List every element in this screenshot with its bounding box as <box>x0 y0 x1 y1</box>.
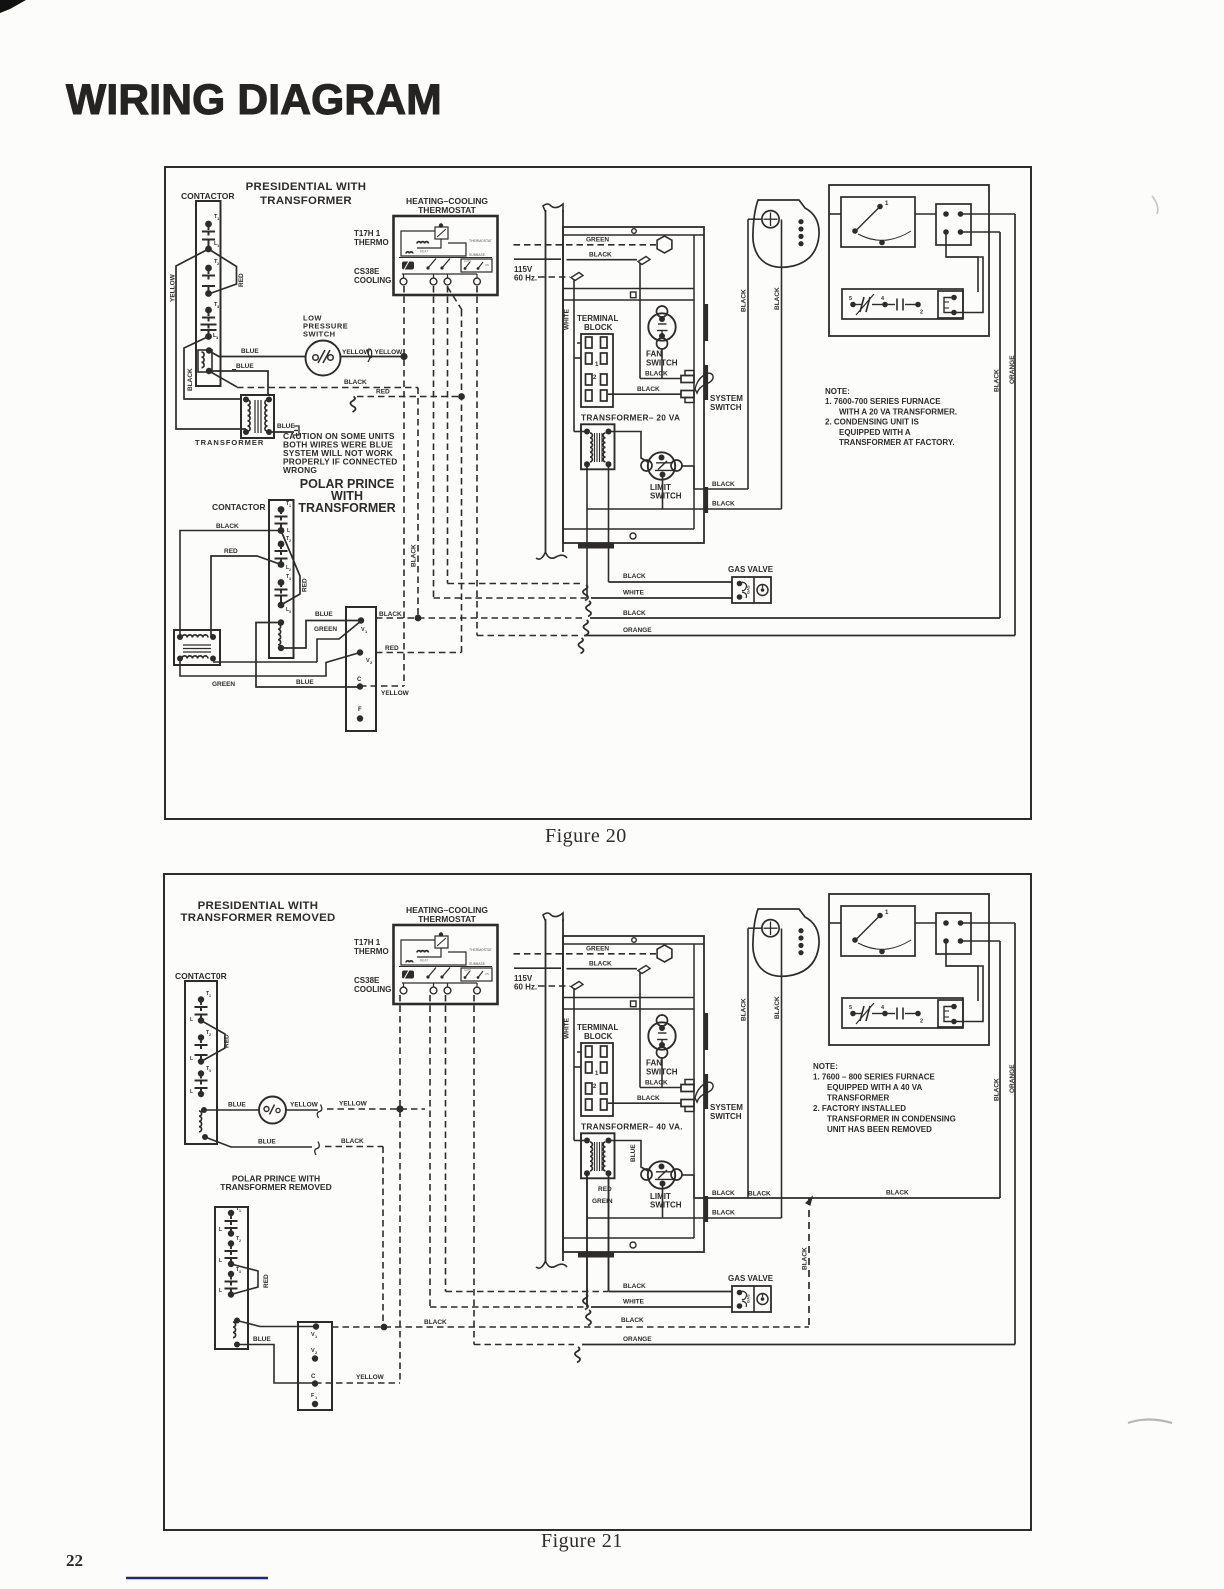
furnace lower band <box>563 528 694 530</box>
contactor (fig21 presidential) <box>185 981 217 1144</box>
thermostat inner circuit loop <box>401 940 466 965</box>
svg-text:TRANSFORMER REMOVED: TRANSFORMER REMOVED <box>220 1182 331 1192</box>
system switch lever <box>695 373 713 393</box>
svg-text:THERMOSTAT: THERMOSTAT <box>418 205 477 215</box>
thermostat switch arm 2 <box>442 968 450 978</box>
svg-text:BLACK: BLACK <box>741 998 748 1021</box>
svg-text:BLACK: BLACK <box>589 961 612 968</box>
svg-text:RED: RED <box>224 548 238 555</box>
wire ORANGE fig21 to condenser <box>582 1344 1015 1346</box>
contactor coil (presidential) <box>198 350 212 372</box>
svg-text:3: 3 <box>239 1270 241 1274</box>
fig21 polar red jumper <box>231 1264 258 1295</box>
polar contactor coil <box>278 619 284 625</box>
terminal block left stub <box>577 1051 581 1053</box>
svg-text:GREIN: GREIN <box>592 1198 613 1205</box>
thermostat cool anticipator <box>406 252 413 254</box>
wire BLACK fig21 dashed riser to gas valve <box>808 1198 810 1327</box>
svg-text:2: 2 <box>289 539 291 543</box>
svg-text:BLUE: BLUE <box>228 1102 246 1109</box>
thermostat switch arm 1 <box>428 968 436 978</box>
wire BLACK polar contactor to transformer <box>180 531 281 638</box>
svg-text:AUTO: AUTO <box>464 968 471 972</box>
svg-text:BLACK: BLACK <box>994 369 1001 392</box>
svg-text:BLUE: BLUE <box>236 363 254 370</box>
fig21 contactor red jumper <box>201 1021 225 1062</box>
svg-text:GAS: GAS <box>746 1294 751 1303</box>
thermostat drop wire 3 <box>447 286 449 584</box>
svg-text:TERMINAL: TERMINAL <box>577 1023 618 1032</box>
system switch <box>681 376 694 383</box>
furnace cabinet hatch strip <box>578 1253 614 1258</box>
capacitor 2 <box>896 299 898 311</box>
control transformer 20 VA <box>581 424 615 469</box>
thermostat terminal W <box>430 987 437 994</box>
contactor contact L3 <box>201 324 217 326</box>
wire condenser terminals to ORANGE <box>961 213 1016 215</box>
svg-text:ORANGE: ORANGE <box>623 1336 652 1343</box>
terminal block <box>581 334 613 407</box>
polar contactor contact L1 <box>275 523 288 525</box>
svg-text:TRANSFORMER IN CONDENSING: TRANSFORMER IN CONDENSING <box>827 1115 956 1124</box>
thermostat terminal W <box>430 278 437 285</box>
junction node yellow fig21 <box>396 1105 403 1112</box>
wire condenser internal jumper <box>946 941 978 1001</box>
svg-text:BLACK: BLACK <box>774 287 781 310</box>
svg-text:2: 2 <box>289 568 291 572</box>
polar contactor contact T3 <box>278 579 285 586</box>
low pressure switch (fig21) <box>259 1097 286 1124</box>
wire BLACK blower to limit circuit (left) <box>747 928 749 1198</box>
svg-text:YELLOW: YELLOW <box>170 273 177 302</box>
svg-text:22: 22 <box>66 1551 83 1570</box>
svg-text:TRANSFORMER– 40 VA.: TRANSFORMER– 40 VA. <box>581 1122 683 1132</box>
thermostat heat anticipator coil <box>417 951 428 953</box>
wire BLACK limit switch to cabinet wall <box>681 465 694 467</box>
svg-text:SYSTEM: SYSTEM <box>710 1103 743 1112</box>
contactor (polar prince) <box>269 500 294 658</box>
fig21 polar contact T3 <box>228 1271 234 1277</box>
contactor contact L1 <box>202 239 215 241</box>
svg-text:YELLOW: YELLOW <box>381 690 410 697</box>
svg-text:C: C <box>311 1374 316 1380</box>
svg-text:THERMOSTAT: THERMOSTAT <box>469 239 492 243</box>
wire BLACK fig21 V1 long dashed <box>332 1326 809 1328</box>
svg-text:SYSTEM: SYSTEM <box>710 394 743 403</box>
svg-text:WIRING DIAGRAM: WIRING DIAGRAM <box>66 77 442 124</box>
svg-text:WHITE: WHITE <box>623 590 645 597</box>
wire fan switch tap <box>661 349 663 379</box>
quick-connect flag on BLACK <box>638 966 650 974</box>
thermostat terminal strip fig21 (V box) <box>298 1322 332 1410</box>
capacitor 2 <box>896 1008 898 1020</box>
svg-text:L: L <box>219 1227 222 1233</box>
svg-text:TRANSFORMER: TRANSFORMER <box>195 438 264 447</box>
wire GREEN (dashed) into furnace <box>514 244 657 246</box>
condenser capacitor box <box>842 289 963 319</box>
svg-text:SWITCH: SWITCH <box>710 1112 742 1121</box>
wire YELLOW contactor loop <box>176 249 246 429</box>
blue rule bottom <box>126 1577 268 1579</box>
quick-connect flag on 115V wire <box>571 273 583 281</box>
polar contactor contact T1 <box>278 506 285 513</box>
svg-text:TERMINAL: TERMINAL <box>577 314 618 323</box>
furnace cabinet screw bottom <box>630 1242 636 1248</box>
svg-text:BLUE: BLUE <box>296 679 314 686</box>
svg-text:TRANSFORMER: TRANSFORMER <box>260 195 352 207</box>
svg-text:GREEN: GREEN <box>314 626 337 633</box>
wire drops from transformer <box>586 1173 588 1307</box>
svg-text:5: 5 <box>849 1005 852 1011</box>
wire BLACK fig21 limit to condenser long <box>694 1197 1000 1199</box>
svg-text:BLACK: BLACK <box>886 1190 909 1197</box>
svg-text:COOLING: COOLING <box>354 276 391 285</box>
wire BLUE fig21 polar to C <box>237 1345 315 1384</box>
svg-text:WHITE: WHITE <box>564 1017 571 1039</box>
svg-text:BLUE: BLUE <box>253 1336 271 1343</box>
wire BLACK furnace to gas valve <box>609 581 733 583</box>
svg-text:GREEN: GREEN <box>212 681 235 688</box>
Figure 21 frame <box>164 874 1031 1530</box>
wire BLACK terminal block to system switch <box>608 393 681 395</box>
svg-text:CONTACTOR: CONTACTOR <box>181 191 235 201</box>
svg-text:SWITCH: SWITCH <box>650 1201 682 1210</box>
thermostat heat anticipator coil <box>417 242 428 244</box>
svg-text:BLACK: BLACK <box>341 1138 364 1145</box>
wire condenser box link <box>915 213 936 215</box>
wire BLACK dashed from coil <box>209 371 237 387</box>
svg-text:BLACK: BLACK <box>637 1095 660 1102</box>
svg-text:ORANGE: ORANGE <box>1009 355 1016 384</box>
furnace cabinet screw mid <box>631 292 637 298</box>
contactor contact L2 <box>202 285 215 287</box>
thermostat mercury bulb <box>402 262 414 270</box>
fig21 polar contact L1 <box>225 1227 238 1229</box>
wire condenser terminals to BLACK <box>961 231 1001 233</box>
fig21 polar contact T1 <box>228 1210 234 1216</box>
wire BLACK to furnace top <box>567 259 638 261</box>
condenser blower motor <box>753 909 819 976</box>
thermostat terminal strip (V box) <box>346 607 376 731</box>
svg-text:BLUE: BLUE <box>630 1144 637 1162</box>
svg-text:GAS: GAS <box>746 585 751 594</box>
115V 60Hz supply label <box>514 967 561 969</box>
svg-text:BLOCK: BLOCK <box>584 323 613 332</box>
svg-text:SWITCH: SWITCH <box>710 403 742 412</box>
condenser relay sub-box <box>938 1000 963 1027</box>
furnace upper band <box>563 997 694 999</box>
wire BLACK to furnace top <box>567 968 638 970</box>
fig21 contactor contact L3 <box>195 1087 208 1089</box>
wire WHITE furnace to gas valve <box>591 597 732 599</box>
svg-text:L: L <box>190 1089 193 1095</box>
svg-text:EQUIPPED WITH A 40 VA: EQUIPPED WITH A 40 VA <box>827 1083 922 1092</box>
wire RED contactor bypass <box>209 249 237 294</box>
svg-text:BLACK: BLACK <box>712 1210 735 1217</box>
svg-text:60 Hz.: 60 Hz. <box>514 274 537 283</box>
transformer (presidential) <box>241 395 274 438</box>
thermostat enclosure <box>394 925 498 1004</box>
svg-text:60 Hz.: 60 Hz. <box>514 983 537 992</box>
svg-text:THERMO: THERMO <box>354 238 389 247</box>
thermostat drop wire 1 yellow <box>403 286 405 686</box>
thermostat heat relay box <box>435 227 448 239</box>
svg-text:YELLOW: YELLOW <box>356 1374 385 1381</box>
svg-text:BLACK: BLACK <box>645 371 668 378</box>
condenser contactor terminal box <box>936 204 971 245</box>
svg-text:NOTE:: NOTE: <box>813 1062 838 1071</box>
gas valve <box>732 577 771 603</box>
svg-text:Figure 20: Figure 20 <box>545 825 627 847</box>
wire WHITE fig21 furnace to gas valve <box>586 1173 588 1307</box>
wire BLUE coil bottom to transformer <box>209 371 268 396</box>
svg-text:2: 2 <box>920 310 923 316</box>
scan smudge right margin <box>1128 1420 1172 1424</box>
svg-text:GREEN: GREEN <box>586 946 609 953</box>
thermostat terminal Y <box>400 987 407 994</box>
junction node yellow <box>400 353 407 360</box>
wire condenser terminals to ORANGE <box>961 922 1016 924</box>
svg-text:F: F <box>358 707 362 713</box>
thermostat terminal G <box>474 278 481 285</box>
svg-text:CS38E: CS38E <box>354 976 380 985</box>
svg-text:WHITE: WHITE <box>623 1299 645 1306</box>
fig21 thermostat drop wire yellow <box>399 995 401 1383</box>
furnace door hinge marks <box>705 304 709 341</box>
svg-text:5: 5 <box>849 296 852 302</box>
fig21 contactor contact T1 <box>198 996 204 1002</box>
svg-text:BLACK: BLACK <box>424 1319 447 1326</box>
svg-text:BLACK: BLACK <box>623 610 646 617</box>
wire BLACK fig21 condenser riser <box>999 941 1001 1198</box>
svg-text:GAS VALVE: GAS VALVE <box>728 1274 774 1283</box>
svg-text:1. 7600 – 800 SERIES FURNACE: 1. 7600 – 800 SERIES FURNACE <box>813 1073 935 1082</box>
contactor (fig21 polar prince) <box>215 1207 248 1349</box>
splice nut on red wire <box>350 397 355 413</box>
quick-connect flag on BLACK <box>638 257 650 265</box>
contactor contact T1 <box>205 221 212 228</box>
thermostat drop wire 4 orange <box>476 286 478 636</box>
wire condenser terminals to BLACK <box>961 940 1001 942</box>
svg-text:ORANGE: ORANGE <box>623 627 652 634</box>
svg-text:BLACK: BLACK <box>379 611 402 618</box>
wire fig21 coil to V1 <box>237 1321 260 1327</box>
condenser contactor terminal box <box>936 913 971 954</box>
thermostat switch arm 1 <box>428 259 436 269</box>
wire GREEN (dashed) into furnace <box>514 953 657 955</box>
svg-text:BLACK: BLACK <box>216 523 239 530</box>
polar contactor contact L2 <box>275 558 288 560</box>
svg-text:NOTE:: NOTE: <box>825 387 850 396</box>
wire YELLOW low pressure switch to junction <box>341 356 405 358</box>
furnace cabinet hatch strip <box>578 544 614 549</box>
furnace upper band <box>563 288 694 290</box>
svg-text:3: 3 <box>289 610 291 614</box>
wire fan switch tap <box>661 1058 663 1088</box>
svg-text:BLUE: BLUE <box>315 611 333 618</box>
svg-text:YELLOW: YELLOW <box>339 1101 368 1108</box>
svg-text:AUTO: AUTO <box>464 259 471 263</box>
fig21 thermostat drop wire orange <box>473 995 475 1345</box>
wire 115V dashed to flag <box>538 985 570 987</box>
fig21 polar contact L2 <box>225 1257 238 1259</box>
wire 115V dashed to flag <box>538 276 570 278</box>
thermostat drop wire 2 white <box>433 286 435 598</box>
contactor (presidential) <box>196 201 221 386</box>
wire BLUE fig21 coil to pressure switch <box>204 1109 259 1111</box>
svg-text:2: 2 <box>239 1239 241 1243</box>
svg-text:BLACK: BLACK <box>344 379 367 386</box>
furnace cabinet <box>563 227 704 543</box>
wire ORANGE fig21 condenser riser <box>1014 923 1016 1345</box>
wire BLACK limit switch right <box>694 488 748 490</box>
svg-text:BLACK: BLACK <box>712 481 735 488</box>
condenser relay sub-box <box>938 291 963 318</box>
svg-text:BLACK: BLACK <box>623 1283 646 1290</box>
limit switch <box>648 452 675 479</box>
svg-text:BLACK: BLACK <box>637 386 660 393</box>
wire BLACK fig21 dashed to drop <box>325 1146 383 1148</box>
svg-text:YELLOW: YELLOW <box>342 349 371 356</box>
svg-text:WRONG: WRONG <box>283 465 317 475</box>
svg-text:1: 1 <box>289 504 291 508</box>
svg-text:2. CONDENSING UNIT IS: 2. CONDENSING UNIT IS <box>825 418 919 427</box>
svg-text:SUBBASE: SUBBASE <box>469 253 486 257</box>
fig21 contactor contact L2 <box>195 1054 208 1056</box>
quick-connect flag on 115V wire <box>571 982 583 990</box>
svg-text:3: 3 <box>289 577 291 581</box>
condenser pressure switch box <box>841 906 915 956</box>
wire GREEN transformer right to V1 <box>213 661 317 663</box>
svg-text:TRANSFORMER– 20 VA: TRANSFORMER– 20 VA <box>581 413 680 423</box>
thermostat terminal bus <box>402 982 477 984</box>
wire BLUE coil top to C terminal <box>256 623 360 688</box>
svg-text:WHITE: WHITE <box>564 308 571 330</box>
system switch lever <box>695 1082 713 1102</box>
svg-text:RED: RED <box>376 389 390 396</box>
svg-text:BLACK: BLACK <box>712 1190 735 1197</box>
thermostat fan switch box <box>461 259 492 272</box>
furnace inner right wall <box>693 944 695 1238</box>
condenser pressure switch box <box>841 197 915 247</box>
fig21 polar coil <box>234 1318 240 1324</box>
thermostat inner circuit loop <box>401 231 466 256</box>
svg-text:1. 7600-700 SERIES FURNACE: 1. 7600-700 SERIES FURNACE <box>825 397 941 406</box>
contactor contact T2 <box>205 265 212 272</box>
svg-text:RED: RED <box>385 645 399 652</box>
svg-text:1: 1 <box>209 994 211 998</box>
svg-text:GAS VALVE: GAS VALVE <box>728 565 774 574</box>
wire sub-box to condenser contactor <box>946 966 983 1022</box>
svg-text:CS38E: CS38E <box>354 267 380 276</box>
wire condenser internal jumper <box>946 232 978 292</box>
wire BLACK blower to limit circuit (left) <box>747 219 749 489</box>
furnace cabinet screw bottom <box>630 533 636 539</box>
thermostat terminal bus <box>402 273 477 275</box>
wire RED dashed to thermostat R drop <box>357 396 462 398</box>
svg-text:TRANSFORMER: TRANSFORMER <box>827 1094 889 1103</box>
air channel bottom hook <box>536 1261 567 1268</box>
thermostat enclosure <box>394 216 498 295</box>
svg-text:2: 2 <box>209 1033 211 1037</box>
Figure 20 frame <box>165 167 1031 819</box>
svg-text:RED: RED <box>598 1186 612 1193</box>
svg-text:PRESIDENTIAL WITH: PRESIDENTIAL WITH <box>246 181 367 193</box>
air channel (115V supply chase) <box>543 204 563 212</box>
svg-text:ON: ON <box>485 263 489 267</box>
furnace cabinet screw top <box>632 938 637 943</box>
system switch <box>681 1085 694 1092</box>
scan artifact top-left corner <box>0 0 26 13</box>
thermostat subbase divider <box>399 257 492 259</box>
furnace cabinet screw top <box>632 229 637 234</box>
svg-text:BLACK: BLACK <box>802 1247 809 1270</box>
capacitor 1 (variable) <box>855 304 862 306</box>
thermostat terminal G <box>474 987 481 994</box>
wire BLACK limit switch to cabinet wall <box>681 1174 694 1176</box>
terminal block left stub <box>577 342 581 344</box>
115V 60Hz supply label <box>514 258 561 260</box>
svg-text:SUBBASE: SUBBASE <box>469 962 486 966</box>
wire BLACK contactor to transformer <box>184 337 241 400</box>
wire BLUE coil bottom to V1 <box>281 621 361 649</box>
wire BLACK flag down to system switch <box>639 263 641 379</box>
wire BLUE coil to low pressure switch <box>209 351 306 357</box>
svg-text:2. FACTORY INSTALLED: 2. FACTORY INSTALLED <box>813 1104 906 1113</box>
svg-text:YELLOW: YELLOW <box>290 1102 319 1109</box>
svg-text:HEAT: HEAT <box>420 959 428 963</box>
svg-text:CONTACTOR: CONTACTOR <box>212 502 266 512</box>
svg-text:BLACK: BLACK <box>623 573 646 580</box>
svg-text:EQUIPPED WITH A: EQUIPPED WITH A <box>839 428 911 437</box>
svg-text:BLUE: BLUE <box>241 348 259 355</box>
svg-text:GREEN: GREEN <box>586 237 609 244</box>
svg-text:C: C <box>357 677 362 683</box>
svg-text:BLACK: BLACK <box>748 1191 771 1198</box>
condenser capacitor box <box>842 998 963 1028</box>
fan switch <box>648 1022 675 1049</box>
wire BLUE fig21 coil bottom <box>205 1137 312 1147</box>
svg-text:L: L <box>190 1017 193 1023</box>
svg-text:SWITCH: SWITCH <box>303 330 336 339</box>
fig21 contactor contact T2 <box>198 1034 204 1040</box>
fan switch <box>648 313 675 340</box>
wire ORANGE condenser riser <box>1014 214 1016 636</box>
capacitor 1 (variable) <box>855 1013 862 1015</box>
svg-text:2: 2 <box>920 1019 923 1025</box>
svg-text:TRANSFORMER REMOVED: TRANSFORMER REMOVED <box>180 912 335 924</box>
transformer (polar prince) <box>174 630 220 665</box>
svg-text:BLUE: BLUE <box>258 1139 276 1146</box>
svg-text:RED: RED <box>238 273 245 287</box>
low pressure switch <box>306 341 341 376</box>
thermostat cool anticipator <box>406 961 413 963</box>
terminal block <box>581 1043 613 1116</box>
polar contactor contact T2 <box>278 541 285 548</box>
wire BLACK blower to limit circuit (right) <box>781 929 783 1219</box>
wire BLACK blower to limit circuit (right) <box>781 220 783 510</box>
contactor contact T3 <box>205 307 212 314</box>
condensing unit enclosure <box>829 185 989 336</box>
svg-text:CONTACT0R: CONTACT0R <box>175 971 227 981</box>
condensing unit enclosure <box>829 894 989 1045</box>
svg-text:BLUE: BLUE <box>277 423 295 430</box>
drop wire black fig21 <box>382 1147 384 1328</box>
furnace cabinet screw mid <box>631 1001 637 1007</box>
furnace lower band <box>563 1237 694 1239</box>
svg-text:HEAT: HEAT <box>420 250 428 254</box>
control transformer 40 VA <box>581 1133 615 1178</box>
